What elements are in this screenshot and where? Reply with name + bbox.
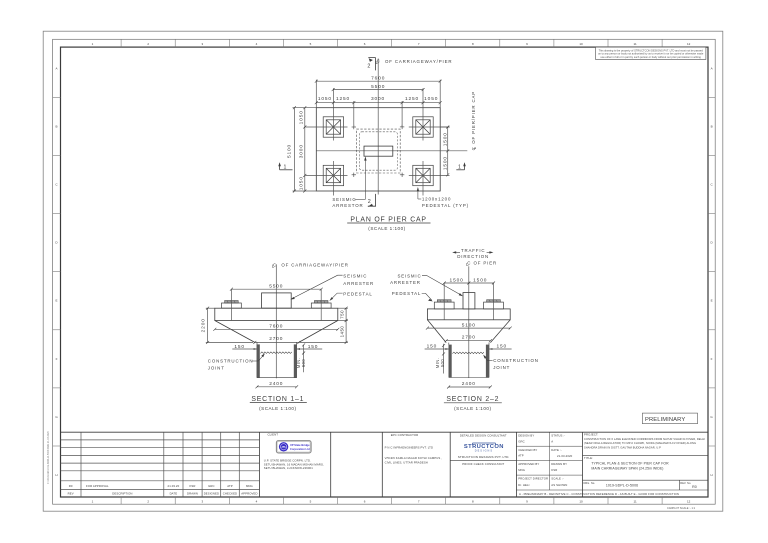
revision row R0 [69,484,253,488]
svg-text:CHECKED: CHECKED [223,492,237,496]
svg-text:OF PIER/PIER CAP: OF PIER/PIER CAP [471,91,476,144]
pedestal top-right [413,117,433,137]
svg-text:1500: 1500 [473,277,487,283]
S2 dim 1500/1500 [444,282,493,284]
pedestal bottom-right [413,165,433,185]
svg-text:150: 150 [427,344,438,350]
S1 pedestal label + leader [329,292,372,301]
S1 trapezoid right slope [299,321,338,343]
svg-text:PRELIMINARY: PRELIMINARY [645,417,685,423]
svg-text:DESIGN BY: DESIGN BY [518,434,534,438]
seismic arrester zone inner dashed rect [359,132,397,170]
ruler band numbers top [92,42,691,504]
corner cross marks [352,125,405,177]
svg-text:2: 2 [368,199,371,205]
svg-text:1200x1200: 1200x1200 [422,197,451,202]
svg-text:CONSTRUCTION: CONSTRUCTION [493,358,539,363]
svg-text:SHAHDRA DRAIN IN DISTT. GAUTAM: SHAHDRA DRAIN IN DISTT. GAUTAM BUDDHA NA… [584,446,661,450]
pedestal typ label + leader (plan) [417,187,469,208]
svg-text:JOINT: JOINT [208,365,225,370]
svg-text:F: F [711,357,713,361]
S2 pier cap beam [427,309,510,320]
copyright note box [596,47,706,59]
S2 column outlines [449,343,489,378]
svg-text:12: 12 [687,500,691,504]
project cell [583,433,709,490]
svg-text:A: A [551,439,553,443]
svg-text:TRAFFIC: TRAFFIC [461,248,486,253]
svg-text:SECTION 2–2: SECTION 2–2 [446,396,499,403]
svg-text:DRAWN BY: DRAWN BY [551,462,567,466]
S2 dim 150 left [425,348,449,350]
svg-text:PROJECT DIRECTOR: PROJECT DIRECTOR [518,477,548,481]
centerline label right (vertical) [471,91,477,150]
section flag 2 bottom [368,194,376,207]
svg-text:REV. No.: REV. No. [680,482,691,485]
svg-text:10: 10 [579,42,583,46]
svg-text:150: 150 [308,344,319,350]
svg-text:(SCALE 1:100): (SCALE 1:100) [259,406,296,411]
ruler band rectangle [53,39,716,504]
S1 centerline [275,264,277,378]
svg-text:SEISMIC: SEISMIC [332,197,356,202]
svg-text:2700: 2700 [462,335,476,341]
svg-text:F: F [56,357,58,361]
S2 traffic direction label + arrows [452,248,493,259]
S2 bearing right [487,300,501,302]
pedestal bottom-left [323,165,343,185]
svg-text:KSR: KSR [551,468,557,472]
svg-text:A: A [711,66,713,70]
svg-text:DESIGNS: DESIGNS [475,450,493,453]
svg-text:CONSTRUCTION OF 6 LANE ELEVATE: CONSTRUCTION OF 6 LANE ELEVATED CORRIDOR… [584,437,705,441]
svg-text:DATE: DATE [170,492,178,496]
S1 dim 150 right [297,348,322,350]
S1 pedestal centerlines [230,289,232,320]
approval cells grid [516,432,708,490]
S1 column outlines [257,342,297,377]
S1 pedestal left [222,303,242,308]
S2 centerline label [466,261,497,267]
svg-text:2400: 2400 [462,381,476,387]
S1 title [250,396,307,411]
svg-text:PLAN OF PIER CAP: PLAN OF PIER CAP [350,216,426,223]
svg-text:OF PIER: OF PIER [474,261,498,266]
S1 construction joint label + leader [208,353,265,370]
svg-text:3000: 3000 [298,144,304,158]
svg-text:SCALE :-: SCALE :- [551,477,563,481]
svg-text:PEDESTAL (TYP): PEDESTAL (TYP) [422,203,469,208]
svg-text:5100: 5100 [287,144,293,158]
svg-text:OF CARRIAGEWAY/PIER: OF CARRIAGEWAY/PIER [385,59,452,64]
svg-text:E: E [711,299,713,303]
svg-text:DRAWN: DRAWN [187,492,198,496]
svg-text:Z:\1019\CAD\1019-SDPL-D-5006.D: Z:\1019\CAD\1019-SDPL-D-5006.DWG 21-03-2… [47,431,50,484]
svg-text:OF CARRIAGEWAY/PIER: OF CARRIAGEWAY/PIER [281,262,348,267]
S2 dim MIN 500 [443,344,445,374]
S2 column formwork bars [449,345,452,378]
svg-text:FOR APPROVAL: FOR APPROVAL [86,484,109,488]
svg-text:PROJECT:: PROJECT: [584,433,598,437]
S1 pedestal right [311,303,331,308]
S1 construction joint zigzag [260,352,292,354]
S2 dim 150 right [489,348,511,350]
S2 seismic arrester block [463,293,475,309]
revision header row [68,492,258,496]
svg-text:CHECKED BY: CHECKED BY [518,448,537,452]
svg-text:CIVIL LINES, UTTAR PRADESH: CIVIL LINES, UTTAR PRADESH [385,460,428,464]
svg-text:2700: 2700 [269,336,283,342]
S2 dim 5100 [427,327,510,329]
client logo emblem [279,442,288,451]
S2 pedestal left [434,302,454,309]
S1 seismic arrester label + leader [290,273,374,299]
svg-text:B: B [711,124,713,128]
S1 dim MIN 500 [303,345,305,372]
svg-text:2: 2 [367,63,370,69]
S2 trapezoid right slope [490,320,510,343]
S1 dim 5500 [231,288,321,290]
svg-text:DESCRIPTION: DESCRIPTION [112,492,132,496]
svg-text:PEDESTAL: PEDESTAL [392,291,421,296]
epc contractor cell [385,433,443,465]
S2 trapezoid left slope [427,320,446,343]
svg-text:ARRESTOR: ARRESTOR [332,203,363,208]
svg-text:1500: 1500 [450,277,464,283]
svg-text:10: 10 [579,500,583,504]
svg-text:150: 150 [497,344,508,350]
svg-text:STATUS :-: STATUS :- [551,434,565,438]
S1 seismic arrester block [262,293,292,308]
S2 pedestal label + leader [392,291,433,301]
seismic arrester block (plan) [364,146,393,156]
S1 bearing left [225,301,239,304]
svg-text:750: 750 [339,310,344,319]
S1 column formwork bars [257,344,260,377]
plan vertical centerline (carriageway/pier) [377,59,379,195]
svg-text:150: 150 [234,344,245,350]
svg-text:7600: 7600 [269,324,283,330]
svg-text:5500: 5500 [371,84,385,90]
svg-text:use either in full or in part: use either in full or in part by such pe… [601,55,702,59]
ruler band letters sides [55,66,713,477]
svg-text:EPC CONTRACTOR: EPC CONTRACTOR [391,433,419,437]
pedestal bottom-left centerlines [306,161,348,196]
seismic arrester zone outer dashed rect [357,129,401,173]
S1 dim 7600 [215,328,338,330]
svg-text:PEDESTAL: PEDESTAL [343,292,372,297]
svg-text:SECTION 1–1: SECTION 1–1 [251,396,304,403]
svg-text:CONSTRUCTION: CONSTRUCTION [208,359,254,364]
design consultant cell [450,433,516,466]
svg-text:1450: 1450 [339,326,344,338]
S2 pedestal right [484,302,504,309]
S1 trapezoid left slope [215,321,255,343]
svg-text:AS SHOWN: AS SHOWN [551,483,567,487]
svg-text:H: H [55,473,57,477]
revision table [61,432,260,497]
pedestal bottom-right centerlines [409,161,450,196]
svg-text:B: B [55,124,57,128]
S1 dims 750/1450 right [299,308,348,342]
S1 dim 2400 [257,386,297,388]
svg-text:ATP: ATP [227,484,233,488]
plan dim row 1050/1250/3000/1250/1050 [316,101,440,127]
plan dim 7600 top [316,80,440,108]
svg-text:11: 11 [634,42,637,46]
svg-text:5500: 5500 [269,284,283,290]
svg-text:7600: 7600 [371,76,385,82]
section flag 1 left [278,162,292,170]
svg-text:(SCALE 1:100): (SCALE 1:100) [454,406,491,411]
S1 dim 2200 left [206,308,253,342]
svg-text:JOINT: JOINT [493,365,510,370]
pedestal top-left centerlines [306,88,348,140]
S2 dim 2400 [449,386,491,388]
svg-text:H: H [711,473,713,477]
S2 title [444,396,502,411]
svg-text:MNG: MNG [246,484,253,488]
svg-text:500: 500 [440,359,445,367]
svg-text:E: E [55,299,57,303]
plan dim 5500 [333,89,423,91]
svg-text:21.03.20: 21.03.20 [168,484,180,488]
svg-text:1: 1 [284,164,287,170]
svg-text:UP State Bridge: UP State Bridge [290,443,310,447]
preliminary stamp [642,413,697,424]
centerline label top [376,59,453,65]
S2 construction joint label + leader [483,355,539,370]
svg-text:DATE :-: DATE :- [551,448,561,452]
svg-text:Dr. HELI: Dr. HELI [518,483,529,487]
sheet outer border [43,31,723,511]
svg-text:1050: 1050 [318,96,332,102]
S2 seismic arrester label + leader [390,274,463,297]
svg-text:500: 500 [301,359,306,367]
svg-text:11: 11 [634,500,637,504]
svg-text:KSR: KSR [189,484,195,488]
svg-text:DIRECTION: DIRECTION [457,254,489,259]
svg-text:A - PRELIMINARY B - DEFINITIV: A - PRELIMINARY B - DEFINITIVE C - CONST… [519,492,679,496]
plan horizontal centerline (pier/pier cap) [316,150,467,152]
svg-text:21-03-2020: 21-03-2020 [557,454,573,458]
svg-text:PROOF CHECK CONSULTANT: PROOF CHECK CONSULTANT [462,462,504,466]
svg-text:2400: 2400 [269,381,283,387]
svg-text:TITLE:: TITLE: [584,456,593,460]
svg-text:DETAILED DESIGN CONSULTANT: DETAILED DESIGN CONSULTANT [460,433,507,437]
svg-text:1250: 1250 [336,96,350,102]
svg-text:1250: 1250 [405,96,419,102]
svg-text:P N C INFRAENGINEERS PVT. LTD: P N C INFRAENGINEERS PVT. LTD [385,445,434,449]
svg-text:MNG: MNG [518,468,525,472]
svg-text:R0: R0 [69,484,73,488]
inner drawing frame [61,47,709,497]
S2 dim 2700 [446,340,490,342]
svg-text:2200: 2200 [200,318,206,332]
svg-text:12: 12 [687,42,691,46]
svg-text:SETU BHAWAN, LUCKNOW-226001: SETU BHAWAN, LUCKNOW-226001 [264,466,313,470]
svg-text:(NEAR OKHLA REGULATOR) TO MP-0: (NEAR OKHLA REGULATOR) TO MP-0 CHOWK, NO… [584,441,696,445]
svg-text:Corporation Ltd: Corporation Ltd [290,447,310,451]
svg-text:DRG. No.: DRG. No. [584,482,596,485]
plan dim 5100 left [293,108,317,191]
svg-text:STRUCTCON DESIGNS PVT. LTD.: STRUCTCON DESIGNS PVT. LTD. [458,455,510,459]
svg-text:APPROVED: APPROVED [241,492,257,496]
pedestal top-right centerlines [409,88,450,140]
svg-text:(SCALE 1:100): (SCALE 1:100) [368,226,405,231]
S1 centerline label [272,262,349,268]
S1 dim 2700 [255,341,299,343]
svg-text:1500: 1500 [443,132,449,146]
S1 pier cap beam [215,308,338,320]
svg-text:A: A [55,66,57,70]
svg-text:ATP: ATP [518,454,524,458]
S1 dim 150 left [232,348,256,350]
svg-text:CADPLOT SCALE :- 1:1: CADPLOT SCALE :- 1:1 [667,506,696,510]
svg-text:3000: 3000 [371,96,385,102]
svg-text:SEISMIC: SEISMIC [397,274,421,279]
ruler band grid marks [53,39,716,504]
seismic arrestor label + leader (plan) [332,156,366,208]
svg-text:TYPICAL PLAN & SECTION OF PIER: TYPICAL PLAN & SECTION OF PIER CAP FOR [591,461,669,465]
S2 bearing left [437,300,451,302]
svg-text:1050: 1050 [298,176,304,190]
plan dim 1500/1500 right [440,127,450,175]
svg-text:CLIENT: CLIENT [268,433,279,437]
plan title [347,216,430,230]
svg-text:DESIGNED: DESIGNED [204,492,219,496]
client cell [264,433,324,471]
svg-text:APPROVED BY: APPROVED BY [518,462,539,466]
svg-text:MAIN CARRIAGEWAY SPAN (24.25m: MAIN CARRIAGEWAY SPAN (24.25m WIDE) [591,467,663,471]
svg-text:1019-SDPL-D-5006: 1019-SDPL-D-5006 [606,484,638,488]
svg-text:GRC: GRC [208,484,215,488]
svg-text:1050: 1050 [298,110,304,124]
pedestal top-left [323,117,343,137]
section flag 2 top [367,58,375,71]
S2 centerline [468,266,470,378]
svg-text:1050: 1050 [424,96,438,102]
title block outline and dividers [61,432,709,497]
svg-text:5100: 5100 [462,322,476,328]
svg-text:R0: R0 [692,485,697,489]
svg-text:1500: 1500 [443,156,449,170]
svg-text:V/519/6 KAMLA NAGAR KOTHI CAMP: V/519/6 KAMLA NAGAR KOTHI CAMPUS , [385,456,443,460]
S2 pedestal centerlines [443,283,445,320]
svg-text:1: 1 [458,164,461,170]
section flag 1 right [456,162,466,170]
svg-text:REV: REV [68,492,74,496]
plan pier cap outline [316,108,440,191]
S1 bearing right [314,301,328,304]
svg-text:GRC: GRC [518,439,525,443]
svg-text:ARRESTER: ARRESTER [390,280,421,285]
S2 construction joint zigzag [452,352,484,354]
svg-text:SEISMIC: SEISMIC [343,273,367,278]
svg-text:ARRESTER: ARRESTER [343,281,374,286]
